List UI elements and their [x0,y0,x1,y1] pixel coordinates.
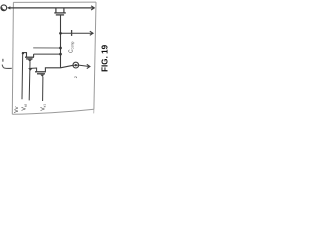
svg-text:FIG. 19: FIG. 19 [100,44,109,71]
svg-text:VV: VV [14,105,20,112]
svg-text:Vb2: Vb2 [21,103,27,110]
svg-text:Vb1: Vb1 [40,104,46,111]
svg-text:2: 2 [74,76,78,78]
svg-text:Ccomp: Ccomp [69,41,75,53]
